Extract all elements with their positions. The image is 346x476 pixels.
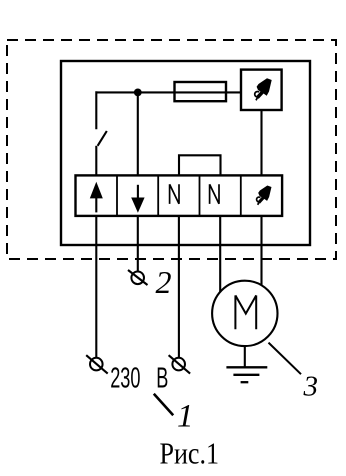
junction dot (134, 89, 142, 97)
wire: cell 3 down to right mains terminal (178, 216, 180, 358)
leader line to label 3 (269, 343, 302, 375)
dashed enclosure border (7, 40, 336, 259)
terminal (right mains) (169, 355, 191, 373)
indicator lamp icon (arrow with curl) (255, 78, 272, 100)
indicator lamp box (241, 70, 282, 110)
wire: switch to terminal strip cell 1 (95, 146, 97, 176)
terminal (left mains) (86, 355, 108, 373)
wire: cell 2 down to terminal 2 (137, 216, 139, 272)
svg-text:В: В (156, 362, 168, 394)
wire: cell 1 down to left mains terminal (95, 216, 97, 358)
indicator icon small (cell 5) (257, 185, 272, 204)
motor M (212, 281, 277, 346)
terminal strip outline (76, 175, 283, 216)
svg-text:3: 3 (303, 370, 319, 402)
wire: top horizontal from switch to lamp box through fuse (96, 91, 241, 129)
down arrow terminal (cell 2) (131, 185, 144, 213)
svg-text:2: 2 (156, 264, 172, 300)
terminal strip cell dividers (117, 175, 241, 216)
leader line to label 1 (154, 394, 173, 416)
wire: lamp box to terminal strip cell 5 (260, 110, 262, 176)
wire: cell 5 down to motor (260, 216, 262, 290)
svg-text:230: 230 (110, 362, 140, 394)
N terminal letter (cell 3) (170, 184, 179, 204)
svg-text:Рис.1: Рис.1 (160, 436, 219, 471)
fuse (175, 82, 227, 101)
voltage label 230 В (110, 362, 168, 394)
N terminal letter (cell 4) (210, 184, 219, 204)
svg-text:1: 1 (177, 399, 194, 435)
jumper link over N terminals (179, 155, 221, 175)
terminal 2 (128, 270, 148, 285)
wire: cell 4 down to motor (219, 216, 221, 295)
up arrow terminal (cell 1) (90, 182, 103, 213)
switch blade (98, 131, 107, 146)
wire: junction down to terminal strip cell 2 (137, 92, 139, 175)
device box (61, 61, 310, 245)
ground (226, 346, 267, 382)
